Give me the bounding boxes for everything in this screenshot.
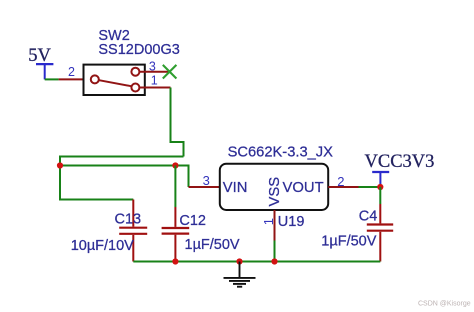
svg-text:1: 1 bbox=[261, 218, 276, 225]
no-connect X on pin 3 bbox=[163, 65, 177, 79]
wire from switch pin 1 down to bus bbox=[171, 88, 184, 157]
op IC U19 body SC662K bbox=[220, 164, 328, 210]
svg-text:1µF/50V: 1µF/50V bbox=[321, 234, 376, 250]
ground rail wire bbox=[133, 261, 380, 263]
wire 5V to switch pin 2 bbox=[45, 78, 59, 80]
svg-text:3: 3 bbox=[203, 173, 210, 188]
IC pin 2 wire (VOUT) bbox=[328, 186, 358, 188]
svg-text:10µF/10V: 10µF/10V bbox=[71, 238, 134, 254]
switch contact circle pin 3 bbox=[131, 68, 139, 76]
junction node C12 top bbox=[172, 162, 178, 168]
svg-text:C4: C4 bbox=[359, 208, 378, 224]
ground symbol bbox=[224, 262, 256, 287]
IC pin 1 wire (VSS) bbox=[274, 210, 276, 241]
switch contact circle pin 1 bbox=[131, 84, 139, 92]
svg-text:2: 2 bbox=[68, 65, 75, 79]
svg-text:VCC3V3: VCC3V3 bbox=[365, 152, 435, 172]
wire upper horizontal line A bbox=[60, 157, 184, 200]
capacitor C13 bbox=[119, 200, 147, 262]
junction node left bbox=[57, 162, 63, 168]
switch SW2 body bbox=[84, 65, 145, 95]
svg-text:3: 3 bbox=[149, 60, 156, 74]
junction node VSS bottom bbox=[271, 258, 277, 264]
svg-text:1µF/50V: 1µF/50V bbox=[185, 237, 240, 253]
svg-text:C13: C13 bbox=[115, 212, 142, 228]
junction node VCC3V3 bbox=[377, 184, 383, 190]
wire VSS to ground rail bbox=[274, 241, 276, 262]
svg-text:CSDN @Kisorge: CSDN @Kisorge bbox=[418, 301, 471, 308]
svg-text:2: 2 bbox=[337, 174, 344, 189]
capacitor C4 bbox=[367, 204, 393, 262]
switch pin 3 wire bbox=[139, 71, 169, 73]
power bar symbol 5V bbox=[36, 64, 53, 79]
svg-text:VIN: VIN bbox=[223, 180, 248, 196]
switch SW2 pin 2 wire bbox=[59, 78, 91, 80]
switch common contact circle (pin 2) bbox=[91, 75, 99, 83]
svg-text:1: 1 bbox=[151, 74, 158, 88]
junction node C12 bottom bbox=[172, 258, 178, 264]
svg-text:SC662K-3.3_JX: SC662K-3.3_JX bbox=[228, 145, 334, 161]
capacitor C4 top wire bbox=[379, 187, 381, 204]
switch pin 1 wire bbox=[139, 87, 170, 89]
wire lower horizontal line B to VIN bbox=[60, 166, 189, 188]
wire VOUT to VCC3V3 node bbox=[359, 186, 381, 188]
svg-text:C12: C12 bbox=[179, 213, 206, 229]
IC U19 pin 3 wire (VIN) bbox=[189, 186, 220, 188]
svg-text:SS12D00G3: SS12D00G3 bbox=[98, 42, 179, 58]
svg-text:VOUT: VOUT bbox=[283, 180, 324, 196]
power bar symbol VCC3V3 bbox=[372, 172, 389, 187]
capacitor C12 top wire bbox=[174, 166, 176, 208]
switch actuator lever bbox=[99, 80, 131, 86]
junction node ground bbox=[236, 258, 242, 264]
svg-text:VSS: VSS bbox=[267, 177, 283, 207]
capacitor C12 bbox=[162, 207, 190, 262]
svg-text:U19: U19 bbox=[278, 214, 305, 230]
